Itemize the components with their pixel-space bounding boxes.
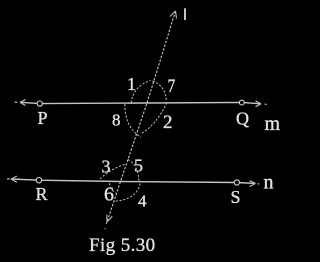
arc angle 7 [153, 81, 167, 102]
svg-text:Fig 5.30: Fig 5.30 [89, 235, 156, 256]
svg-text:2: 2 [163, 112, 173, 133]
svg-text:1: 1 [127, 74, 136, 94]
arc angle 3 [100, 164, 126, 179]
line m left tick [15, 101, 18, 103]
line n right tick [258, 183, 260, 185]
svg-text:5: 5 [134, 156, 143, 176]
transversal tip speck [104, 228, 106, 230]
line m right arrowhead [256, 101, 262, 107]
line n left tick [7, 178, 10, 180]
wire line m (top horizontal line through P and Q) [20, 102, 261, 104]
svg-text:4: 4 [138, 192, 147, 211]
arc angle 4 [115, 184, 141, 202]
point R [36, 178, 41, 183]
point Q [239, 100, 244, 105]
transversal top arrowhead [170, 11, 177, 19]
line n left arrowhead [11, 176, 17, 182]
point S [234, 180, 239, 185]
svg-text:3: 3 [102, 157, 111, 177]
wire line n (bottom horizontal line through R and S) [11, 179, 256, 183]
svg-text:n: n [264, 172, 274, 194]
svg-text:S: S [231, 187, 241, 207]
arc angle 5 [128, 160, 139, 183]
line m right tick [265, 103, 267, 105]
svg-text:8: 8 [112, 111, 121, 130]
arc angle 8 [125, 104, 141, 137]
svg-text:6: 6 [104, 184, 114, 206]
line m left arrowhead [20, 100, 26, 106]
transversal bottom arrowhead [107, 215, 113, 223]
arc angle 2 [141, 103, 168, 135]
svg-text:m: m [265, 113, 281, 135]
svg-text:7: 7 [168, 76, 176, 97]
label l [184, 8, 186, 20]
svg-text:P: P [38, 108, 48, 128]
arc angle 6 [110, 183, 116, 193]
point P [37, 101, 42, 106]
line n right arrowhead [250, 181, 256, 187]
wire transversal l [106, 11, 175, 224]
svg-text:Q: Q [236, 109, 249, 129]
svg-text:R: R [36, 184, 48, 204]
arc angle 1 [131, 81, 151, 104]
